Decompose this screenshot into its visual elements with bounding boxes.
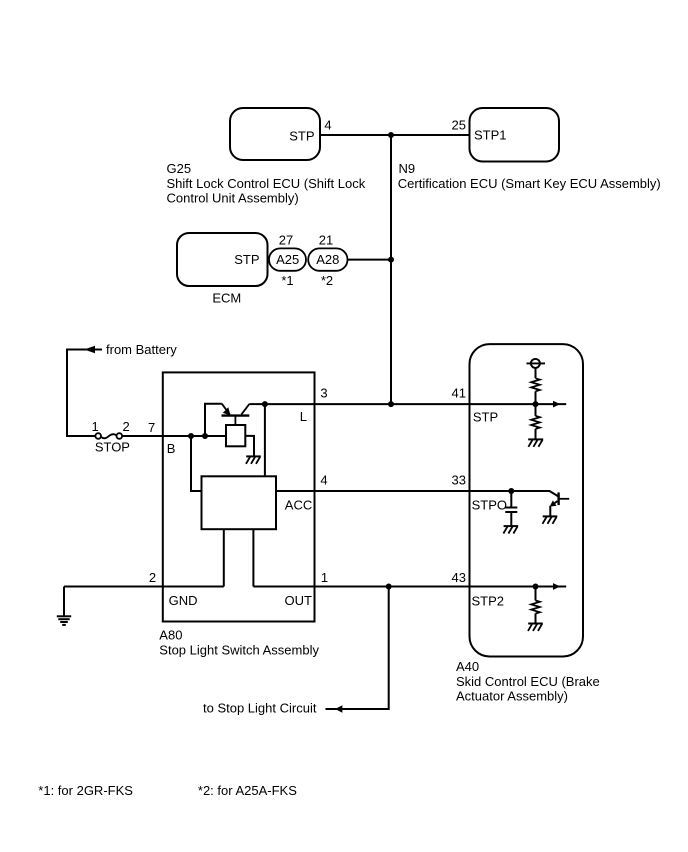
transistor Q1 base stem [234, 416, 236, 425]
junction dot OUT branch [386, 584, 392, 590]
svg-text:L: L [300, 409, 307, 424]
svg-text:1: 1 [321, 570, 328, 585]
svg-text:4: 4 [324, 118, 331, 133]
svg-text:21: 21 [319, 233, 333, 248]
connector box ECM [177, 233, 268, 286]
junction dot B1 [188, 433, 194, 439]
junction dot B2 [202, 433, 208, 439]
svg-text:STP1: STP1 [474, 128, 507, 143]
svg-text:25: 25 [452, 118, 466, 133]
power symbol [527, 359, 546, 368]
svg-text:N9: N9 [399, 161, 416, 176]
resistor R1 [531, 378, 540, 391]
svg-text:to Stop Light Circuit: to Stop Light Circuit [203, 701, 317, 716]
wire node to resistor R2 [535, 404, 537, 416]
svg-text:41: 41 [452, 386, 466, 401]
svg-text:Certification ECU (Smart Key E: Certification ECU (Smart Key ECU Assembl… [398, 176, 661, 191]
svg-text:A25: A25 [276, 252, 299, 267]
earth ground [57, 587, 71, 625]
stop lamp switch contact 1 [95, 433, 101, 439]
transistor Q2 collector [559, 498, 570, 500]
svg-text:*1: *1 [281, 273, 293, 288]
connector capsule A25 [269, 248, 306, 270]
junction dot collector node [262, 401, 268, 407]
resistor R3 [531, 601, 540, 614]
wire L output [265, 403, 536, 405]
svg-text:Actuator Assembly): Actuator Assembly) [456, 688, 568, 703]
svg-text:27: 27 [279, 233, 293, 248]
svg-text:*2: *2 [321, 273, 333, 288]
transistor Q1 emitter [222, 404, 230, 415]
svg-text:Skid Control ECU (Brake: Skid Control ECU (Brake [456, 674, 600, 689]
svg-text:33: 33 [452, 473, 466, 488]
chassis ground (R2) [528, 439, 543, 446]
arrow from battery [84, 346, 95, 353]
chassis ground (Q2) [543, 516, 558, 523]
wire node down to contact box [264, 404, 266, 476]
svg-text:7: 7 [148, 420, 155, 435]
wire G25 to STP1 [320, 134, 470, 136]
chassis ground (capacitor) [503, 526, 518, 533]
transistor Q2 emitter arrow [550, 500, 557, 506]
wire emitter to ground [549, 506, 551, 517]
svg-text:Shift Lock Control ECU (Shift: Shift Lock Control ECU (Shift Lock [167, 176, 366, 191]
trunk wire vertical [390, 135, 392, 404]
stop lamp switch blade [101, 434, 117, 438]
svg-text:A40: A40 [456, 659, 479, 674]
svg-text:1: 1 [91, 419, 98, 434]
svg-text:A28: A28 [316, 252, 339, 267]
resistor R2 [531, 416, 540, 429]
arrow STP [536, 403, 567, 405]
transistor Q1 base bar [222, 414, 250, 416]
capacitor C1 [505, 508, 517, 513]
wire GND [64, 586, 224, 588]
wire STPO to capacitor [510, 491, 512, 507]
svg-text:A80: A80 [159, 628, 182, 643]
svg-text:STOP: STOP [95, 440, 130, 455]
svg-text:*1: for 2GR-FKS: *1: for 2GR-FKS [38, 783, 133, 798]
chassis ground (A80 internal) [246, 456, 261, 463]
svg-text:2: 2 [149, 570, 156, 585]
svg-text:STP: STP [473, 410, 498, 425]
junction dot STPO [508, 488, 514, 494]
contact block box [202, 476, 277, 529]
wire resistor to node [535, 391, 537, 404]
switch element box [226, 425, 245, 446]
junction dot top [388, 132, 394, 138]
wire capacitor to ground [510, 513, 512, 526]
connector box G25 [230, 108, 320, 160]
transistor Q2 emitter [552, 501, 558, 506]
svg-text:from Battery: from Battery [106, 342, 177, 357]
svg-text:STP: STP [289, 129, 314, 144]
wire contact box OUT leg [252, 529, 254, 586]
svg-text:2: 2 [122, 419, 129, 434]
wire contact box GND leg [223, 529, 225, 586]
junction dot trunk bottom [388, 401, 394, 407]
stop lamp switch contact 2 [117, 433, 123, 439]
wire collector to node [249, 403, 265, 405]
transistor Q1 collector [241, 404, 249, 415]
A40 box [470, 344, 584, 656]
wire R2 to ground [535, 429, 537, 440]
wire OUT to A40 [253, 586, 535, 588]
junction dot ECM wire [388, 257, 394, 263]
arrow STP2 [536, 586, 567, 588]
connector box STP1 (N9) [470, 108, 560, 162]
wire switch to A80 [122, 435, 226, 437]
chassis ground (R3) [528, 624, 543, 631]
svg-text:43: 43 [452, 570, 466, 585]
wire R3 to ground [535, 614, 537, 624]
svg-text:Stop Light Switch Assembly: Stop Light Switch Assembly [159, 642, 319, 657]
transistor Q2 base bar [557, 492, 559, 505]
wire A28 to trunk [348, 259, 392, 261]
wire from battery corner [67, 350, 102, 437]
transistor Q1 emitter arrow [223, 407, 231, 415]
wire STPO to transistor [511, 491, 558, 496]
svg-text:ACC: ACC [285, 498, 312, 513]
svg-text:STP: STP [234, 252, 259, 267]
svg-text:3: 3 [320, 386, 327, 401]
wire to stop light circuit [326, 587, 389, 710]
arrow to stop light circuit [335, 705, 342, 713]
connector capsule A28 [308, 248, 347, 270]
wire B1 down to contact box [191, 436, 202, 491]
svg-text:B: B [167, 441, 176, 456]
wire element to ground [245, 436, 254, 457]
junction dot STP2 [533, 584, 539, 590]
svg-text:STPO: STPO [472, 498, 507, 513]
svg-text:4: 4 [320, 473, 327, 488]
svg-text:OUT: OUT [285, 593, 313, 608]
svg-text:G25: G25 [167, 161, 192, 176]
svg-text:ECM: ECM [212, 291, 241, 306]
A80 box [163, 372, 315, 621]
svg-text:*2: for A25A-FKS: *2: for A25A-FKS [198, 783, 297, 798]
svg-text:Control Unit Assembly): Control Unit Assembly) [167, 191, 299, 206]
wire B2 up to transistor emitter [205, 404, 222, 436]
svg-text:GND: GND [169, 593, 198, 608]
svg-text:STP2: STP2 [472, 594, 505, 609]
junction dot STP [533, 401, 539, 407]
wire STP2 to resistor R3 [535, 587, 537, 601]
wire ACC output [276, 490, 511, 492]
wire power to resistor [535, 368, 537, 379]
